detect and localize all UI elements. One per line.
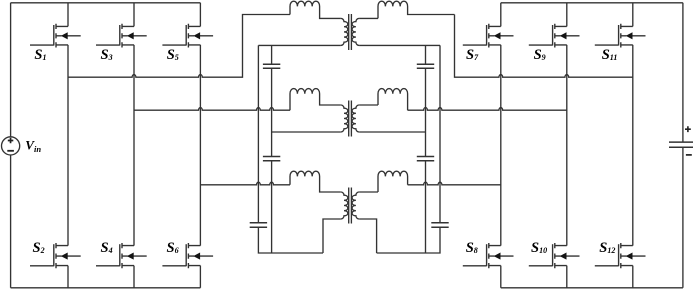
wire left input rail upper (10, 3, 12, 137)
wire secondary C lead from T3 (359, 191, 378, 193)
wire output rail lower (682, 147, 684, 287)
transformer T2 core (349, 101, 352, 137)
svg-text:S12: S12 (599, 240, 615, 256)
wire secondary A drop and run (455, 15, 633, 78)
wire leg F midpoint S11-S12 (632, 45, 634, 246)
wire left input rail lower (10, 155, 12, 288)
svg-text:S5: S5 (167, 47, 179, 63)
svg-text:S1: S1 (34, 47, 46, 63)
svg-text:Vin: Vin (25, 138, 41, 155)
transistor S10 (529, 243, 580, 268)
svg-text:S8: S8 (466, 240, 478, 256)
transformer T3 core (349, 188, 352, 224)
svg-text:S2: S2 (33, 240, 45, 256)
transformer T1 core (349, 14, 352, 50)
transformer T2 primary winding (341, 105, 348, 132)
inductor Lr C right (378, 171, 408, 192)
svg-text:S6: S6 (167, 240, 179, 256)
wire bus2 right lower (425, 161, 427, 253)
wire T2 secondary return lead (359, 131, 425, 133)
capacitor Cs3 right plates (431, 223, 448, 227)
wire leg D midpoint S7-S8 (500, 45, 502, 246)
wire leg F drain S11 (632, 3, 634, 27)
label output plus (685, 126, 691, 132)
transistor S8 (463, 243, 514, 268)
wire leg B source S4 (133, 266, 135, 288)
inductor Lr C left (290, 171, 341, 192)
inductor Lr B left (290, 89, 341, 111)
label Vin plus (8, 138, 14, 143)
transistor S11 (595, 24, 646, 48)
wire top rail right bridge (501, 2, 683, 4)
wire T1 primary return to bus1 (258, 44, 340, 46)
wire bottom rail right bridge (501, 287, 683, 289)
wire secondary B lead from T2 (359, 104, 378, 106)
transistor S12 (595, 243, 646, 268)
inductor Lr A left (290, 1, 341, 18)
svg-text:S7: S7 (466, 47, 479, 63)
transistor S1 (30, 24, 81, 48)
inductor Lr A right (378, 1, 455, 18)
wire bus2 right mid (425, 68, 427, 156)
transistor S6 (162, 243, 213, 268)
capacitor Cr2 left plates (263, 157, 280, 161)
svg-text:S10: S10 (531, 240, 547, 256)
transistor S3 (96, 24, 147, 48)
wire leg C drain S5 (199, 3, 201, 27)
wire T2 primary return lead (272, 131, 341, 133)
wire bus2 left mid (271, 68, 273, 156)
wire output rail upper (682, 3, 684, 142)
transistor S5 (162, 24, 213, 48)
wire T3 primary bottom staircase (323, 219, 341, 253)
wire leg F source S12 (632, 266, 634, 288)
transformer T1 secondary winding (352, 18, 359, 45)
wire bus1 right upper (439, 45, 441, 222)
svg-text:S4: S4 (101, 240, 113, 256)
source Vin circle (2, 137, 20, 155)
transformer T2 secondary winding (352, 105, 359, 132)
wire bus2 left lower (271, 161, 273, 253)
wire bus1 left lower (258, 227, 323, 253)
svg-text:S11: S11 (602, 47, 618, 63)
transistor S7 (463, 24, 514, 48)
transistor S4 (96, 243, 147, 268)
wire leg D source S8 (500, 266, 502, 288)
capacitor Cs2 right plates (417, 157, 434, 161)
wire T1 secondary return to bus1 right (359, 44, 440, 46)
wire leg E source S10 (566, 266, 568, 288)
wire T3 secondary bottom staircase (359, 219, 377, 253)
wire secondary C run with hops (408, 182, 501, 185)
wire leg C midpoint S5-S6 (199, 45, 201, 246)
wire leg E midpoint S9-S10 (566, 45, 568, 246)
wire leg B midpoint S3-S4 (133, 45, 135, 246)
capacitor Cout plates (669, 142, 693, 147)
wire leg A source S2 (67, 266, 69, 288)
transformer T3 primary winding (341, 192, 348, 219)
capacitor Cr1 left plates (263, 64, 280, 68)
transistor S2 (30, 243, 81, 268)
wire secondary B run with hops (408, 108, 567, 111)
transformer T1 primary winding (341, 18, 348, 45)
wire phase A with hops over legs B,C (68, 15, 290, 78)
wire top rail left bridge (11, 2, 201, 4)
transformer T3 secondary winding (352, 192, 359, 219)
transistor S9 (529, 24, 580, 48)
wire bottom rail left bridge (11, 287, 201, 289)
wire leg A drain S1 (67, 3, 69, 27)
label output minus (686, 154, 692, 156)
svg-text:S9: S9 (534, 47, 546, 63)
wire bus2 right upper stub (425, 45, 427, 64)
wire bus1 left upper (257, 45, 259, 222)
wire phase B with hops (134, 108, 290, 111)
inductor Lr B right (378, 89, 408, 111)
capacitor Cs1 right plates (417, 64, 434, 68)
label Vin minus (7, 150, 14, 152)
wire bus1 right lower (377, 227, 440, 253)
wire leg C source S6 (199, 266, 201, 288)
wire leg E drain S9 (566, 3, 568, 27)
wire bus2 left upper stub (271, 45, 273, 64)
capacitor Cr3 left plates (250, 223, 267, 227)
wire leg D drain S7 (500, 3, 502, 27)
wire leg B drain S3 (133, 3, 135, 27)
wire secondary A from T1 to right bridge with hops (359, 17, 378, 19)
svg-text:S3: S3 (101, 47, 113, 63)
wire phase C with hops (200, 182, 290, 185)
wire leg A midpoint S1-S2 (67, 45, 69, 246)
